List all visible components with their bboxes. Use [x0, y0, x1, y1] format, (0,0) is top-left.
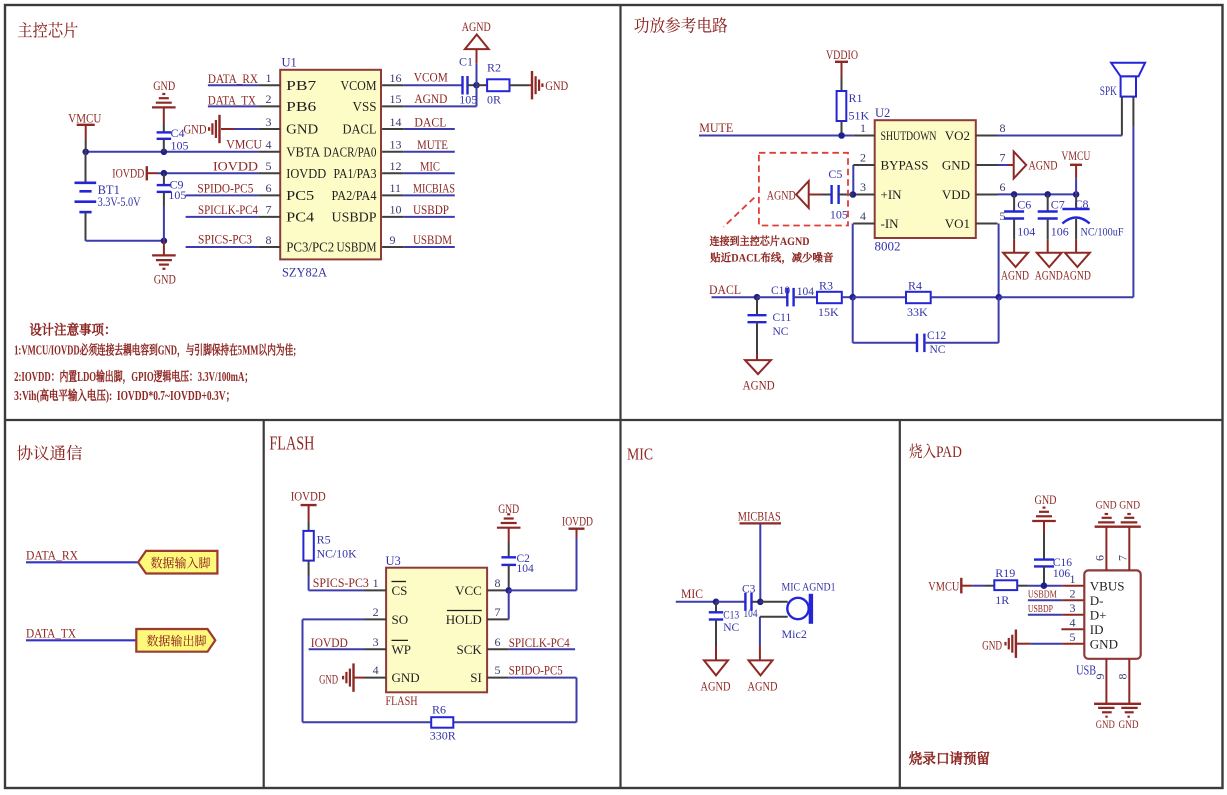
GND label above C4 — [153, 79, 175, 93]
R19 designator — [995, 566, 1015, 580]
resistor R1 — [837, 77, 847, 136]
GND label at pin3 — [184, 123, 207, 137]
svg-text:5: 5 — [266, 159, 272, 173]
svg-text:SPIDO-PC5: SPIDO-PC5 — [509, 664, 563, 678]
svg-text:AGND: AGND — [1029, 158, 1058, 172]
wire SPICS-PC3 (pin8) — [186, 246, 259, 248]
ground symbol at pin5 (rotated) — [1006, 630, 1016, 658]
ground AGND under C11 — [745, 354, 771, 374]
svg-text:PC5: PC5 — [286, 188, 314, 203]
battery BT1 — [75, 152, 97, 241]
svg-text:3.3V-5.0V: 3.3V-5.0V — [98, 195, 141, 209]
svg-text:106: 106 — [1051, 224, 1069, 238]
svg-text:R4: R4 — [908, 278, 922, 292]
AGND label under C6 — [1001, 269, 1029, 283]
svg-text:GND: GND — [545, 79, 568, 93]
net label DATA_RX — [26, 547, 79, 562]
net label MIC — [681, 587, 703, 601]
svg-text:3:Vih(高电平输入电压): IOVDD*0.7~IOV: 3:Vih(高电平输入电压): IOVDD*0.7~IOVDD+0.3V； — [14, 385, 235, 404]
svg-text:R3: R3 — [819, 278, 833, 292]
svg-text:NC/100uF: NC/100uF — [1081, 224, 1124, 238]
svg-text:DACL: DACL — [709, 282, 741, 297]
svg-text:8: 8 — [266, 233, 272, 247]
svg-text:SPICLK-PC4: SPICLK-PC4 — [198, 203, 259, 217]
C3 value 104 — [744, 608, 758, 620]
wire pin7 up — [1128, 527, 1130, 571]
wire SPICLK-PC4 pin6 — [509, 648, 575, 650]
svg-text:VDD: VDD — [942, 187, 970, 202]
resistor R19 — [985, 580, 1029, 590]
wire MIC junction to C3 — [716, 601, 745, 603]
AGND label under C11 — [743, 378, 775, 392]
svg-text:GND: GND — [982, 638, 1002, 652]
svg-text:DATA_TX: DATA_TX — [26, 625, 77, 640]
svg-text:SPIDO-PC5: SPIDO-PC5 — [197, 181, 253, 195]
net label USBDM — [1028, 589, 1057, 601]
wire DACL to C10 — [757, 296, 787, 298]
wire mic to AGND — [759, 617, 761, 661]
panel title FLASH — [269, 434, 314, 455]
svg-text:SCK: SCK — [457, 642, 483, 657]
net label IOVDD at pin3 — [311, 636, 348, 650]
svg-text:NC/10K: NC/10K — [317, 547, 357, 561]
net label SPICLK-PC4 — [509, 636, 571, 650]
svg-text:VMCU: VMCU — [68, 110, 102, 125]
svg-text:GND: GND — [1090, 636, 1118, 651]
capacitor C11 — [748, 297, 767, 354]
svg-text:AGND: AGND — [767, 188, 796, 202]
svg-text:9: 9 — [1093, 674, 1107, 680]
U3 pin stubs — [365, 590, 509, 677]
svg-text:PC4: PC4 — [286, 210, 314, 225]
R4 designator — [908, 278, 922, 292]
C2 designator — [517, 553, 531, 565]
svg-text:MIC AGND1: MIC AGND1 — [782, 580, 836, 594]
C2 value 104 — [517, 563, 535, 575]
svg-text:1: 1 — [860, 121, 866, 135]
AGND label under C8 — [1063, 269, 1091, 283]
svg-text:设计注意事项：: 设计注意事项： — [28, 319, 116, 339]
svg-text:贴近DACL布线，减少噪音: 贴近DACL布线，减少噪音 — [710, 250, 834, 266]
svg-text:VDDIO: VDDIO — [826, 48, 858, 62]
svg-text:R2: R2 — [487, 61, 501, 75]
U1 pin numbers — [266, 71, 402, 247]
USB pin names — [1090, 578, 1125, 651]
power port VMCU — [928, 578, 972, 594]
wire C12 branch right — [924, 297, 998, 343]
svg-text:AGND: AGND — [701, 679, 731, 693]
svg-text:GND: GND — [286, 122, 318, 137]
power port IOVDD right — [562, 515, 593, 538]
wire pin3 to GND symbol — [221, 128, 259, 130]
wire R6 to SO pin2 — [303, 619, 432, 722]
BT1 designator — [98, 183, 120, 197]
wire DATA_TX (pin2) — [208, 105, 259, 107]
svg-text:PB7: PB7 — [286, 78, 316, 93]
wire VMCU port to VBTA — [85, 140, 87, 152]
wire to microphone — [760, 601, 787, 603]
wire MICBIAS (pin11) — [404, 194, 455, 196]
wire SPIDO-PC5 pin5 to R6 — [453, 678, 576, 723]
wire VDD rail — [998, 193, 1077, 195]
USB connector body — [1084, 570, 1140, 658]
svg-text:AGND: AGND — [1001, 269, 1029, 283]
junction bottom GND — [161, 238, 168, 245]
resistor R2 — [477, 79, 530, 91]
net label SPICS-PC3 — [313, 576, 369, 590]
capacitor C7 — [1038, 194, 1058, 239]
svg-text:IOVDD: IOVDD — [112, 166, 144, 180]
wire pin4 -IN down to R3/R4 node — [852, 224, 854, 298]
svg-text:5: 5 — [1070, 630, 1076, 644]
svg-text:VCOM: VCOM — [341, 78, 377, 93]
capacitor C16 — [1034, 533, 1054, 586]
svg-text:PB6: PB6 — [286, 99, 316, 114]
microphone Mic2 — [787, 594, 811, 624]
GND label above C2 — [498, 502, 519, 516]
svg-text:3: 3 — [1070, 601, 1076, 615]
svg-text:PA2/PA4: PA2/PA4 — [332, 188, 377, 203]
wire output node to SPK lead — [999, 296, 1134, 298]
wire microphone bottom — [760, 616, 788, 618]
svg-text:SPICS-PC3: SPICS-PC3 — [313, 576, 369, 590]
C1 value 105 — [459, 92, 477, 106]
svg-text:D+: D+ — [1090, 607, 1107, 622]
svg-text:FLASH: FLASH — [386, 693, 418, 708]
svg-text:GND: GND — [392, 670, 420, 685]
wire VMCU to VDD rail — [1075, 178, 1077, 194]
wire MUTE net — [699, 135, 853, 137]
svg-text:C3: C3 — [742, 583, 756, 595]
svg-text:GND: GND — [154, 273, 176, 287]
svg-text:DATA_TX: DATA_TX — [208, 92, 257, 107]
svg-text:5: 5 — [495, 663, 501, 677]
wire AGND vertical — [476, 49, 478, 106]
C10 designator — [771, 285, 790, 297]
svg-text:U2: U2 — [875, 106, 890, 120]
wire R5 to pin1 — [309, 576, 365, 590]
svg-text:SPICS-PC3: SPICS-PC3 — [198, 233, 252, 247]
ground AGND under C8 — [1065, 240, 1090, 267]
wire SPIDO-PC5 (pin6) — [186, 194, 259, 196]
svg-text:1: 1 — [373, 576, 379, 590]
svg-text:SPICLK-PC4: SPICLK-PC4 — [509, 636, 571, 650]
svg-text:3: 3 — [373, 635, 379, 649]
wire battery bottom to C9 bottom — [86, 240, 164, 242]
svg-text:GND: GND — [153, 79, 175, 93]
svg-text:2: 2 — [266, 92, 272, 106]
annotation 贴近DACL布线 — [710, 250, 834, 266]
capacitor C1 — [463, 76, 477, 95]
pin number 6 (rotated) — [1093, 555, 1107, 561]
note 烧录口请预留 — [908, 747, 990, 768]
wire MUTE (pin13) — [404, 151, 455, 153]
svg-text:VMCU: VMCU — [928, 579, 959, 593]
svg-text:VMCU: VMCU — [226, 137, 263, 152]
capacitor C2 — [501, 542, 516, 590]
svg-text:NC: NC — [723, 622, 739, 634]
junction VDD/C7 — [1044, 191, 1051, 198]
wire DATA_TX — [26, 639, 136, 641]
svg-text:VO1: VO1 — [945, 216, 970, 231]
svg-text:DATA_RX: DATA_RX — [26, 547, 79, 562]
svg-text:数据输入脚: 数据输入脚 — [151, 552, 211, 571]
ground symbol GND above C16 (inverted) — [1032, 508, 1056, 533]
panel title MIC — [627, 444, 653, 463]
svg-text:D-: D- — [1090, 593, 1104, 608]
pin number 8 (rotated) — [1116, 674, 1130, 680]
wire SPICLK-PC4 (pin7) — [186, 216, 259, 218]
power symbol AGND right-pointing — [1014, 152, 1026, 179]
ground symbol GND bottom (earth) — [152, 241, 176, 269]
wire VBUS pin stub — [1062, 585, 1084, 587]
svg-text:IOVDD: IOVDD — [311, 636, 348, 650]
svg-text:-IN: -IN — [881, 216, 900, 231]
svg-text:104: 104 — [797, 286, 815, 298]
junction R1/MUTE — [838, 132, 845, 139]
power symbol AGND left-pointing — [796, 181, 809, 208]
svg-text:协议通信: 协议通信 — [17, 440, 84, 464]
svg-text:FLASH: FLASH — [269, 434, 314, 455]
flag 数据输入脚 (input pin) — [138, 551, 217, 574]
svg-text:105: 105 — [171, 138, 189, 152]
svg-text:2: 2 — [1070, 587, 1076, 601]
svg-text:9: 9 — [390, 233, 396, 247]
svg-text:106: 106 — [1053, 568, 1071, 580]
svg-text:ID: ID — [1090, 622, 1104, 637]
svg-text:GND: GND — [1035, 493, 1057, 507]
AGND label in dashed box — [767, 188, 796, 202]
svg-text:3: 3 — [860, 180, 866, 194]
net label MIC — [420, 158, 440, 173]
svg-text:GND: GND — [184, 123, 207, 137]
svg-text:USBDP: USBDP — [413, 202, 449, 217]
C11 value NC — [773, 326, 789, 338]
svg-text:GND: GND — [1096, 719, 1115, 731]
net label MICBIAS — [738, 510, 781, 524]
Mic2 label — [782, 627, 807, 641]
wire MIC — [676, 601, 716, 603]
svg-text:WP: WP — [392, 642, 412, 657]
capacitor C13 — [709, 602, 723, 646]
capacitor C4 — [157, 123, 172, 152]
U1 part number SZY82A — [282, 265, 328, 280]
pin number 7 (rotated) — [1115, 555, 1129, 561]
C5 designator — [828, 167, 842, 181]
capacitor C5 — [822, 185, 853, 204]
USB designator — [1076, 662, 1096, 677]
R5 value NC/10K — [317, 547, 357, 561]
net label SPIDO-PC5 — [509, 664, 563, 678]
net label SPICS-PC3 — [198, 233, 252, 247]
AGND label under C7 — [1035, 269, 1063, 283]
note line 3 — [14, 385, 235, 404]
svg-text:1R: 1R — [995, 593, 1009, 607]
net label USBDP — [1028, 603, 1053, 615]
net label USBDP — [413, 202, 449, 217]
svg-text:4: 4 — [1070, 616, 1076, 630]
wire IOVDD (pin5) — [158, 172, 259, 174]
annotation 连接到主控芯片AGND — [710, 233, 810, 249]
junction MIC/C13 — [713, 599, 720, 606]
junction VMCU/VBTA — [82, 149, 89, 156]
resistor R3 — [817, 292, 842, 303]
svg-text:DATA_RX: DATA_RX — [208, 71, 259, 86]
C16 designator — [1053, 557, 1072, 569]
IC U3 FLASH body — [386, 568, 487, 693]
wire VCC node to IOVDD — [509, 538, 577, 591]
U2 part number 8002 — [875, 239, 901, 254]
svg-text:7: 7 — [495, 605, 501, 619]
IC U1 SZY82A body — [280, 70, 381, 260]
svg-text:1:VMCU/IOVDD必须连接去耦电容到GND，与引脚保持: 1:VMCU/IOVDD必须连接去耦电容到GND，与引脚保持在5MM以内为佳; — [14, 340, 296, 359]
GND label right of R2 — [545, 79, 568, 93]
R3 value 15K — [818, 305, 839, 319]
svg-text:CS: CS — [392, 583, 408, 598]
junction C16/VBUS — [1041, 582, 1048, 589]
wire C10 to R3 — [794, 296, 817, 298]
flag 数据输出脚 (output pin) — [136, 629, 215, 652]
C8 designator — [1075, 197, 1089, 211]
svg-text:R5: R5 — [317, 532, 331, 546]
wire node to R4 — [853, 296, 906, 298]
wire pin7 to AGND — [998, 164, 1014, 166]
junction VCC node — [505, 587, 512, 594]
svg-text:R1: R1 — [849, 91, 863, 105]
panel title 协议通信 — [17, 440, 84, 464]
resistor R4 — [906, 292, 931, 303]
net label DACL — [414, 114, 446, 129]
ground AGND under C13 — [704, 646, 728, 675]
U3 pin numbers — [373, 576, 501, 677]
svg-text:15: 15 — [390, 92, 402, 106]
USB pin numbers 1-5 — [1070, 572, 1076, 644]
junction C4/VBTA — [161, 149, 168, 156]
wire HOLD up to VCC node — [508, 590, 510, 619]
svg-text:33K: 33K — [907, 305, 928, 319]
ground AGND under C7 — [1037, 240, 1062, 267]
svg-text:10: 10 — [390, 203, 402, 217]
wire MIC (pin12) — [404, 172, 455, 174]
svg-text:MIC: MIC — [420, 158, 440, 173]
R4 value 33K — [907, 305, 928, 319]
svg-text:AGND: AGND — [743, 378, 775, 392]
AGND label at pin7 — [1029, 158, 1058, 172]
junction +IN node — [850, 191, 857, 198]
ground AGND under C6 — [1003, 240, 1028, 267]
panel title 主控芯片 — [17, 16, 78, 41]
AGND label under C13 — [701, 679, 731, 693]
wire VO1 down to output node — [998, 224, 1000, 298]
svg-text:4: 4 — [860, 209, 866, 223]
Mic2 designator MIC AGND1 — [782, 580, 836, 594]
svg-text:AGND: AGND — [462, 20, 491, 34]
net label VCOM — [414, 70, 448, 85]
note line 2 — [14, 366, 253, 385]
wire MICBIAS down — [759, 523, 761, 601]
svg-text:104: 104 — [744, 608, 758, 620]
svg-text:PC3/PC2: PC3/PC2 — [286, 240, 334, 255]
dashed leader line — [724, 198, 755, 227]
wire C12 branch left — [853, 297, 917, 343]
svg-text:4: 4 — [373, 663, 379, 677]
C12 value NC — [930, 344, 946, 356]
power port VDDIO — [826, 48, 858, 77]
svg-text:C13: C13 — [723, 609, 739, 621]
svg-text:2:IOVDD：内置LDO输出脚，GPIO逻辑电压：3.3V: 2:IOVDD：内置LDO输出脚，GPIO逻辑电压：3.3V/100mA； — [14, 366, 253, 385]
svg-text:IOVDD: IOVDD — [562, 515, 593, 529]
BT1 value 3.3V-5.0V — [98, 195, 141, 209]
wire pin4 gnd — [355, 677, 365, 679]
U2 designator — [875, 106, 890, 120]
svg-text:GND: GND — [1119, 719, 1139, 731]
svg-text:VBTA: VBTA — [286, 144, 320, 159]
C6 value 104 — [1017, 224, 1035, 238]
R1 designator — [849, 91, 863, 105]
svg-text:6: 6 — [266, 181, 272, 195]
svg-text:SI: SI — [470, 670, 482, 685]
svg-text:GND: GND — [1096, 500, 1117, 512]
GND labels below pins 9 8 — [1096, 719, 1139, 731]
C7 designator — [1051, 197, 1065, 211]
svg-text:C1: C1 — [459, 55, 473, 69]
capacitor C3 — [745, 593, 760, 611]
wire VCOM (pin16) — [404, 84, 463, 86]
R6 designator — [432, 702, 446, 716]
svg-text:2: 2 — [373, 605, 379, 619]
wire R4 to output node — [931, 296, 999, 298]
wire AGND to C5 — [809, 194, 822, 196]
C10 value 104 — [797, 286, 815, 298]
C5 value 105 — [830, 208, 848, 222]
capacitor C10 — [787, 288, 793, 307]
junction R4/VO1/SPK — [996, 294, 1003, 301]
wire USBDM (pin9) — [404, 246, 455, 248]
svg-text:BYPASS: BYPASS — [881, 158, 929, 173]
ground symbol GND above C4 (inverted) — [152, 94, 176, 123]
wire DATA_RX — [26, 561, 138, 563]
svg-text:C11: C11 — [773, 312, 792, 324]
ground symbol at pin4 (rotated) — [343, 663, 353, 691]
R5 designator — [317, 532, 331, 546]
svg-text:SZY82A: SZY82A — [282, 265, 328, 280]
svg-text:16: 16 — [390, 71, 402, 85]
capacitor C9 — [157, 173, 172, 241]
svg-text:VCC: VCC — [455, 583, 482, 598]
resistor R5 — [303, 521, 313, 576]
junction IOVDD/C9 — [161, 170, 168, 177]
svg-text:7: 7 — [1000, 151, 1006, 165]
svg-text:8: 8 — [1000, 121, 1006, 135]
svg-text:MIC: MIC — [681, 587, 703, 601]
pin number 9 (rotated) — [1093, 674, 1107, 680]
svg-text:SHUTDOWN: SHUTDOWN — [881, 128, 937, 143]
svg-text:USBDP: USBDP — [332, 210, 377, 225]
C9 value 105 — [168, 188, 186, 202]
net label MICBIAS — [413, 181, 455, 196]
net label USBDM — [413, 232, 452, 247]
wire DACL (pin14) — [404, 128, 455, 130]
svg-text:4: 4 — [266, 138, 272, 152]
U2 pin names — [881, 128, 971, 231]
svg-text:330R: 330R — [430, 729, 456, 743]
svg-text:6: 6 — [495, 635, 501, 649]
svg-text:+IN: +IN — [881, 187, 903, 202]
svg-text:USBDM: USBDM — [1028, 589, 1057, 601]
junction C1/R2/AGND — [473, 82, 480, 89]
svg-text:数据输出脚: 数据输出脚 — [147, 630, 207, 649]
junction R3/R4/-IN — [849, 294, 856, 301]
